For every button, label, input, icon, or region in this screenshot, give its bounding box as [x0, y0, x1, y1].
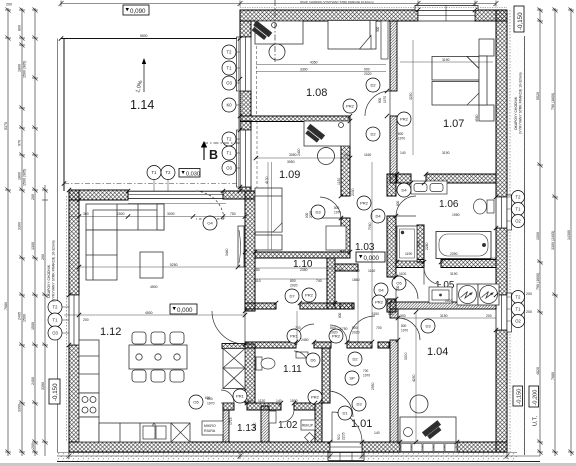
wall 1.13 left: [223, 410, 229, 442]
svg-text:1970: 1970: [401, 329, 408, 333]
svg-text:1950: 1950: [452, 213, 460, 217]
desk 1.09: [304, 121, 350, 165]
door arc 1.05-wall: [424, 268, 441, 285]
door arc mid corridor: [330, 325, 347, 342]
level box -0,150 topright: [514, 6, 524, 32]
terrace outline 1.14: [58, 39, 241, 453]
mikro riura box: [202, 421, 223, 435]
svg-text:3050: 3050: [289, 153, 297, 157]
svg-text:800: 800: [18, 25, 22, 31]
svg-text:2205: 2205: [342, 432, 346, 440]
svg-text:K0: K0: [226, 103, 232, 108]
vanity 1.06: [411, 181, 447, 194]
kitchen sink: [143, 424, 166, 439]
svg-text:0,030: 0,030: [186, 172, 200, 178]
svg-text:T1: T1: [516, 307, 522, 312]
left dimension line mid: [19, 8, 25, 457]
svg-text:140: 140: [276, 399, 282, 403]
svg-text:200: 200: [83, 318, 89, 322]
svg-text:1970: 1970: [383, 96, 387, 103]
svg-text:700: 700: [363, 369, 369, 373]
right dimension line a: [537, 8, 543, 457]
svg-text:3390: 3390: [41, 382, 45, 390]
window terrace wall lower: [237, 130, 252, 187]
dishwasher X: [171, 423, 190, 442]
wall 1.09 bottom: [255, 252, 350, 258]
svg-text:O3: O3: [226, 81, 232, 86]
svg-text:PR1: PR1: [236, 394, 245, 399]
okapovy chodnik text right: [514, 72, 523, 134]
svg-text:900: 900: [364, 68, 370, 72]
wall 1.07-1.06: [397, 174, 496, 183]
svg-text:T2: T2: [53, 305, 59, 310]
svg-text:800: 800: [334, 206, 340, 210]
svg-text:4250: 4250: [412, 374, 416, 382]
door arc corridor-1.06: [396, 196, 416, 216]
wc 1.11: [256, 357, 275, 370]
window left wall 1.12: [69, 295, 79, 345]
svg-text:1.04: 1.04: [427, 346, 448, 358]
svg-text:T2: T2: [516, 295, 522, 300]
svg-text:800: 800: [338, 312, 342, 318]
dining chairs bottom: [132, 370, 184, 382]
svg-text:1970: 1970: [334, 211, 341, 215]
svg-text:MIKRO: MIKRO: [204, 424, 216, 428]
svg-text:800: 800: [401, 324, 407, 328]
svg-text:2020: 2020: [364, 72, 372, 76]
svg-text:2430: 2430: [297, 148, 301, 156]
svg-text:OKAP. CHODNIK (VYMYVANY STRK F: OKAP. CHODNIK (VYMYVANY STRK FRAKCIE 16-…: [300, 0, 374, 4]
wall 1.13 right: [261, 406, 269, 442]
svg-text:4130: 4130: [265, 176, 269, 184]
svg-text:0,000: 0,000: [177, 307, 193, 314]
interior dim window living: [83, 212, 236, 216]
door arc corridor-1.01: [330, 316, 375, 417]
svg-text:800: 800: [330, 326, 336, 330]
svg-text:T1: T1: [152, 170, 158, 175]
svg-text:1970: 1970: [363, 374, 370, 378]
interior dim 1.06: [405, 213, 496, 261]
door arc wc 1.11: [294, 351, 308, 365]
left dimension line partial: [42, 185, 48, 456]
interior dim 1.08 bottom: [265, 148, 371, 184]
window tag circles right wall bottom: [512, 291, 525, 328]
kitchen counter left: [79, 340, 99, 393]
level box 0,000 living: [170, 304, 197, 314]
wall corridor right: [387, 174, 396, 312]
wall 1.10 bottom: [245, 303, 276, 309]
cabinet 1.09: [255, 235, 282, 250]
window bottom wall 1.04: [400, 442, 457, 452]
svg-text:250: 250: [254, 268, 260, 272]
svg-text:T1: T1: [227, 66, 233, 71]
gravel strip right: [508, 10, 525, 455]
svg-text:PR2: PR2: [375, 300, 384, 305]
entrance door bottom wall: [328, 442, 364, 461]
washbasin 1.05: [429, 287, 452, 303]
interior dim corridor: [254, 222, 382, 342]
svg-text:0,000: 0,000: [364, 255, 380, 262]
level box -0,150 left: [49, 379, 60, 404]
interior dim 1.04: [396, 312, 496, 442]
svg-text:O3: O3: [52, 331, 58, 336]
wall 1.11 top: [245, 342, 389, 348]
svg-text:900: 900: [352, 326, 358, 330]
svg-text:4500: 4500: [150, 285, 158, 289]
svg-text:-0,150: -0,150: [517, 389, 523, 405]
bathtub 1.06: [436, 232, 491, 259]
wall 1.08 bottom: [240, 116, 350, 122]
svg-text:140: 140: [374, 431, 380, 435]
svg-text:D2: D2: [370, 83, 376, 88]
svg-text:3000: 3000: [167, 212, 175, 216]
svg-text:D3: D3: [356, 402, 362, 407]
svg-text:140: 140: [400, 151, 406, 155]
svg-text:1800: 1800: [18, 64, 22, 72]
svg-text:PR2: PR2: [400, 117, 409, 122]
okapovy chodnik text left: [47, 240, 56, 302]
roof eave dashed line: [64, 183, 240, 185]
door arc 1.12 main: [212, 311, 245, 344]
svg-text:790 (1600): 790 (1600): [536, 273, 540, 290]
wall 1.10 right: [327, 258, 335, 309]
svg-text:300: 300: [400, 314, 406, 318]
right dim texts: [526, 92, 571, 380]
interior dim 1.08 top: [256, 65, 386, 72]
junction tick marks: [59, 8, 498, 444]
window right wall 1.06: [496, 195, 512, 230]
wall row 1.13 top: [223, 403, 315, 410]
interior dim 1.07: [400, 40, 493, 155]
svg-text:D2: D2: [370, 132, 376, 137]
svg-text:1500: 1500: [23, 314, 27, 322]
svg-text:PR2: PR2: [311, 395, 320, 400]
section line B horizontal: [203, 142, 240, 144]
right wall: [496, 10, 507, 452]
svg-text:200: 200: [41, 254, 45, 260]
left wall: [69, 190, 79, 442]
svg-text:1800: 1800: [18, 172, 22, 180]
svg-text:7060: 7060: [368, 222, 372, 230]
washbasin 1.13: [269, 411, 276, 423]
gray page bar bottom: [0, 463, 576, 466]
svg-text:2090: 2090: [450, 252, 458, 256]
svg-text:1100: 1100: [399, 272, 406, 276]
svg-text:1500: 1500: [31, 322, 35, 330]
svg-text:1750: 1750: [340, 327, 348, 331]
door arc 1.04 entry: [398, 318, 420, 340]
valve symbol 1.02: [305, 433, 315, 443]
door tag circle 1.09: [305, 205, 325, 219]
svg-text:790 (1600): 790 (1600): [551, 93, 555, 110]
svg-text:O4: O4: [207, 221, 213, 226]
svg-text:700: 700: [376, 326, 382, 330]
door arc corridor-1.05: [396, 277, 418, 299]
svg-text:1.09: 1.09: [279, 169, 300, 181]
svg-text:4580: 4580: [475, 114, 479, 122]
terrace-side wall upper: [240, 21, 251, 191]
door arc kitchen: [221, 390, 234, 403]
kitchen counter corner: [79, 417, 99, 442]
svg-text:1.01: 1.01: [351, 418, 372, 430]
window tag circles right wall top: [512, 191, 525, 228]
svg-text:1190: 1190: [405, 252, 412, 256]
svg-text:3050: 3050: [287, 160, 295, 164]
svg-text:T1: T1: [516, 207, 522, 212]
wall 1.06-1.05: [396, 260, 496, 268]
svg-text:2020: 2020: [445, 299, 453, 303]
svg-text:2020: 2020: [309, 211, 313, 218]
right dimension line b: [552, 8, 558, 457]
svg-text:1500 (905): 1500 (905): [23, 61, 27, 78]
shower 1.06: [397, 226, 417, 261]
svg-text:740: 740: [316, 279, 322, 283]
svg-text:3190: 3190: [442, 151, 450, 155]
svg-text:140: 140: [388, 312, 394, 316]
svg-text:1500 (905): 1500 (905): [23, 169, 27, 186]
svg-text:860: 860: [490, 257, 496, 261]
stove: [79, 393, 99, 417]
door arc 1.08: [365, 91, 390, 116]
svg-text:D3: D3: [315, 210, 321, 215]
svg-text:1000: 1000: [536, 232, 540, 240]
laundry basket corridor: [326, 226, 346, 250]
svg-text:200: 200: [31, 443, 35, 449]
svg-text:700: 700: [396, 285, 400, 291]
svg-text:OKAPOVY CHODNIK: OKAPOVY CHODNIK: [47, 264, 51, 298]
wall corridor left stub: [335, 264, 358, 271]
svg-text:2020: 2020: [352, 331, 360, 335]
door arc 1.11 entry: [296, 324, 314, 342]
svg-text:D2: D2: [352, 357, 358, 362]
svg-text:3300: 3300: [300, 68, 308, 72]
left dimension line inner: [32, 8, 38, 457]
dryer 1.05: [478, 284, 499, 305]
svg-text:970: 970: [18, 140, 22, 146]
window tag circles terrace wall: [222, 45, 236, 175]
left dimension line outer: [5, 8, 11, 457]
section line A: [274, 0, 276, 62]
svg-text:1.02: 1.02: [278, 420, 298, 431]
svg-text:T2: T2: [227, 137, 233, 142]
svg-text:O2: O2: [515, 219, 521, 224]
bottom dimension line: [57, 453, 540, 459]
dim verticals small: [268, 162, 372, 345]
svg-text:2020: 2020: [290, 284, 298, 288]
svg-text:140: 140: [337, 268, 343, 272]
wall 1.01 left: [315, 403, 322, 442]
svg-text:OKAPOVY CHODNIK: OKAPOVY CHODNIK: [514, 96, 518, 130]
svg-text:700: 700: [295, 326, 301, 330]
svg-text:T1: T1: [227, 151, 233, 156]
svg-text:2405: 2405: [18, 312, 22, 320]
svg-text:5520: 5520: [536, 92, 540, 100]
svg-text:5250: 5250: [170, 263, 178, 267]
svg-text:200: 200: [6, 3, 12, 7]
svg-text:14300: 14300: [567, 230, 571, 240]
level box -0,150 right: [513, 386, 523, 406]
svg-text:750: 750: [230, 212, 236, 216]
bed 1.08: [328, 21, 376, 50]
interior dim 1.12 bottom: [78, 318, 80, 340]
svg-text:800: 800: [378, 97, 382, 103]
svg-text:200: 200: [526, 292, 532, 296]
section mark B: [201, 141, 218, 162]
svg-text:D6: D6: [310, 358, 316, 363]
svg-text:200: 200: [31, 194, 35, 200]
level box -0,030: [179, 169, 200, 178]
svg-text:1.14: 1.14: [130, 98, 154, 112]
svg-text:2020: 2020: [330, 331, 338, 335]
TV board: [238, 226, 244, 267]
svg-text:REKUP.: REKUP.: [302, 424, 314, 428]
svg-text:900: 900: [337, 434, 341, 440]
svg-text:(VYMYVANY STRK FRAKCIE 16-32mm: (VYMYVANY STRK FRAKCIE 16-32mm): [52, 240, 56, 302]
svg-text:1.11: 1.11: [283, 364, 302, 375]
door dims small: [205, 96, 408, 400]
svg-text:2350: 2350: [300, 268, 308, 272]
svg-text:T1: T1: [53, 318, 59, 323]
svg-text:D4: D4: [401, 188, 407, 193]
svg-text:1.12: 1.12: [100, 326, 121, 338]
top wall: [240, 10, 507, 21]
svg-text:4820: 4820: [536, 367, 540, 375]
svg-text:T2: T2: [516, 195, 522, 200]
svg-text:D3: D3: [425, 324, 431, 329]
top dimension line: [59, 1, 499, 7]
door tag circles interior: [189, 78, 435, 420]
dotted outline above top wall: [240, 7, 507, 9]
svg-text:1430: 1430: [417, 240, 421, 248]
svg-text:5500: 5500: [140, 34, 148, 38]
svg-text:1160: 1160: [364, 153, 371, 157]
door arc 1.09: [320, 197, 341, 218]
svg-text:(VYMYVANY STRK FRAKCIE 16-32mm: (VYMYVANY STRK FRAKCIE 16-32mm): [519, 72, 523, 134]
desk 1.04: [400, 395, 456, 442]
window terrace wall upper: [237, 37, 252, 91]
dining table: [129, 345, 187, 369]
svg-text:-0,200: -0,200: [533, 390, 539, 406]
level box -0,200 right: [529, 386, 539, 426]
svg-text:300: 300: [376, 26, 380, 32]
washer 1.05: [457, 284, 478, 305]
svg-text:1970: 1970: [207, 402, 215, 406]
svg-text:0,090: 0,090: [130, 8, 146, 15]
svg-text:-0,150: -0,150: [517, 12, 524, 30]
svg-text:SP: SP: [349, 376, 355, 381]
wall shower-bath: [417, 225, 424, 262]
window top wall 1.07: [415, 6, 478, 22]
svg-text:2450: 2450: [301, 338, 309, 342]
bed 1.07: [432, 39, 494, 121]
svg-text:1800: 1800: [290, 399, 298, 403]
gravel strip bottom: [57, 453, 540, 462]
svg-text:1150: 1150: [372, 312, 379, 316]
svg-text:T2: T2: [227, 50, 233, 55]
dining chairs top: [132, 332, 184, 344]
svg-text:2030: 2030: [351, 188, 355, 196]
bottom wall: [69, 442, 507, 452]
svg-text:1500: 1500: [117, 212, 125, 216]
svg-text:1120: 1120: [258, 399, 265, 403]
svg-text:700: 700: [354, 269, 360, 273]
svg-text:800: 800: [398, 132, 404, 136]
wall 1.07 left: [390, 21, 397, 183]
svg-text:600: 600: [205, 396, 211, 400]
svg-text:O5: O5: [193, 400, 199, 405]
living top wall hatch: [69, 190, 128, 200]
svg-text:300: 300: [83, 212, 89, 216]
svg-text:3250: 3250: [409, 92, 413, 100]
window tag circles left wall: [48, 300, 62, 340]
svg-text:1.08: 1.08: [306, 87, 327, 99]
svg-text:1.07: 1.07: [443, 118, 464, 130]
circle connector stems: [62, 52, 512, 333]
svg-text:5370: 5370: [4, 122, 8, 130]
svg-text:1300: 1300: [31, 242, 35, 250]
washbasin 1.11b: [296, 352, 308, 358]
window tag circles terrace bottom: [147, 166, 175, 180]
center vertical wall: [245, 191, 255, 403]
level box 0,000 corridor: [356, 252, 385, 262]
svg-text:3300: 3300: [404, 352, 408, 360]
interior dim 1.05: [395, 238, 397, 262]
roof overhang dashed vertical: [256, 21, 258, 116]
right dimension line c: [568, 8, 574, 457]
svg-text:3390: 3390: [18, 404, 22, 412]
svg-text:O3: O3: [226, 166, 232, 171]
svg-text:1715: 1715: [229, 417, 233, 425]
svg-text:PR2: PR2: [346, 104, 355, 109]
svg-text:B: B: [209, 148, 218, 162]
living top wall stub: [223, 191, 256, 199]
svg-text:800: 800: [396, 200, 400, 206]
slope arrow 1.0%: [135, 58, 146, 94]
sofa living room: [86, 204, 164, 280]
svg-text:140: 140: [344, 153, 350, 157]
door arc entrance: [332, 412, 362, 442]
wall 1.05 bottom: [390, 302, 496, 309]
svg-text:2280: 2280: [425, 242, 429, 250]
door arc O4 terrace: [196, 191, 224, 219]
svg-text:3440: 3440: [225, 248, 229, 256]
svg-text:PR2: PR2: [360, 201, 369, 206]
svg-text:PR1: PR1: [290, 334, 299, 339]
wall 1.01 right: [390, 309, 398, 442]
kitchen counter bottom: [99, 423, 190, 442]
interior dim 1.09: [287, 160, 355, 196]
window living-terrace: [128, 191, 226, 203]
bench squares outside 1.04: [401, 444, 455, 452]
level box +0,090: [123, 5, 149, 15]
svg-text:1970: 1970: [398, 137, 405, 141]
svg-text:800: 800: [290, 279, 296, 283]
terrace sill band: [239, 37, 243, 187]
left dim texts: [4, 3, 45, 450]
svg-text:T2: T2: [166, 170, 172, 175]
svg-text:3190: 3190: [440, 314, 448, 318]
svg-text:200: 200: [486, 314, 492, 318]
wc 1.06: [474, 199, 495, 214]
svg-text:3300: 3300: [18, 222, 22, 230]
interior dim living: [64, 267, 245, 315]
svg-text:3300 (2405): 3300 (2405): [551, 231, 555, 250]
wall 1.11 right: [322, 348, 330, 403]
svg-text:D4: D4: [375, 214, 381, 219]
bed 1.09: [255, 188, 282, 232]
dim row above 1.10: [255, 268, 335, 279]
svg-text:1860: 1860: [352, 278, 360, 282]
